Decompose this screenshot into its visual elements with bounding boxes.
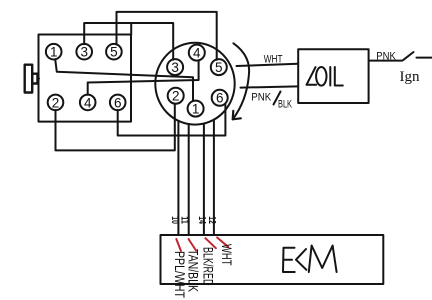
svg-text:3: 3: [171, 60, 179, 75]
svg-text:5: 5: [110, 45, 118, 60]
svg-text:Ign: Ign: [400, 69, 420, 85]
svg-text:2: 2: [172, 89, 180, 104]
svg-text:6: 6: [114, 95, 122, 110]
svg-text:1: 1: [50, 45, 58, 60]
svg-text:12: 12: [206, 216, 217, 224]
svg-text:6: 6: [216, 91, 224, 106]
svg-text:TAN/BLK: TAN/BLK: [185, 249, 201, 292]
svg-text:10: 10: [169, 216, 180, 224]
svg-text:4: 4: [84, 95, 92, 110]
svg-text:1: 1: [192, 102, 200, 117]
svg-text:2: 2: [52, 95, 60, 110]
svg-text:PNK: PNK: [251, 91, 272, 103]
svg-text:PNK: PNK: [376, 51, 396, 63]
svg-text:WHT: WHT: [219, 244, 235, 266]
svg-text:5: 5: [215, 60, 223, 75]
svg-text:BLK: BLK: [278, 99, 292, 111]
svg-text:4: 4: [193, 46, 201, 61]
svg-text:14: 14: [196, 216, 207, 224]
svg-text:3: 3: [80, 45, 88, 60]
svg-text:11: 11: [178, 216, 189, 224]
svg-text:BLK/RED: BLK/RED: [200, 247, 216, 286]
svg-text:WHT: WHT: [264, 54, 283, 66]
